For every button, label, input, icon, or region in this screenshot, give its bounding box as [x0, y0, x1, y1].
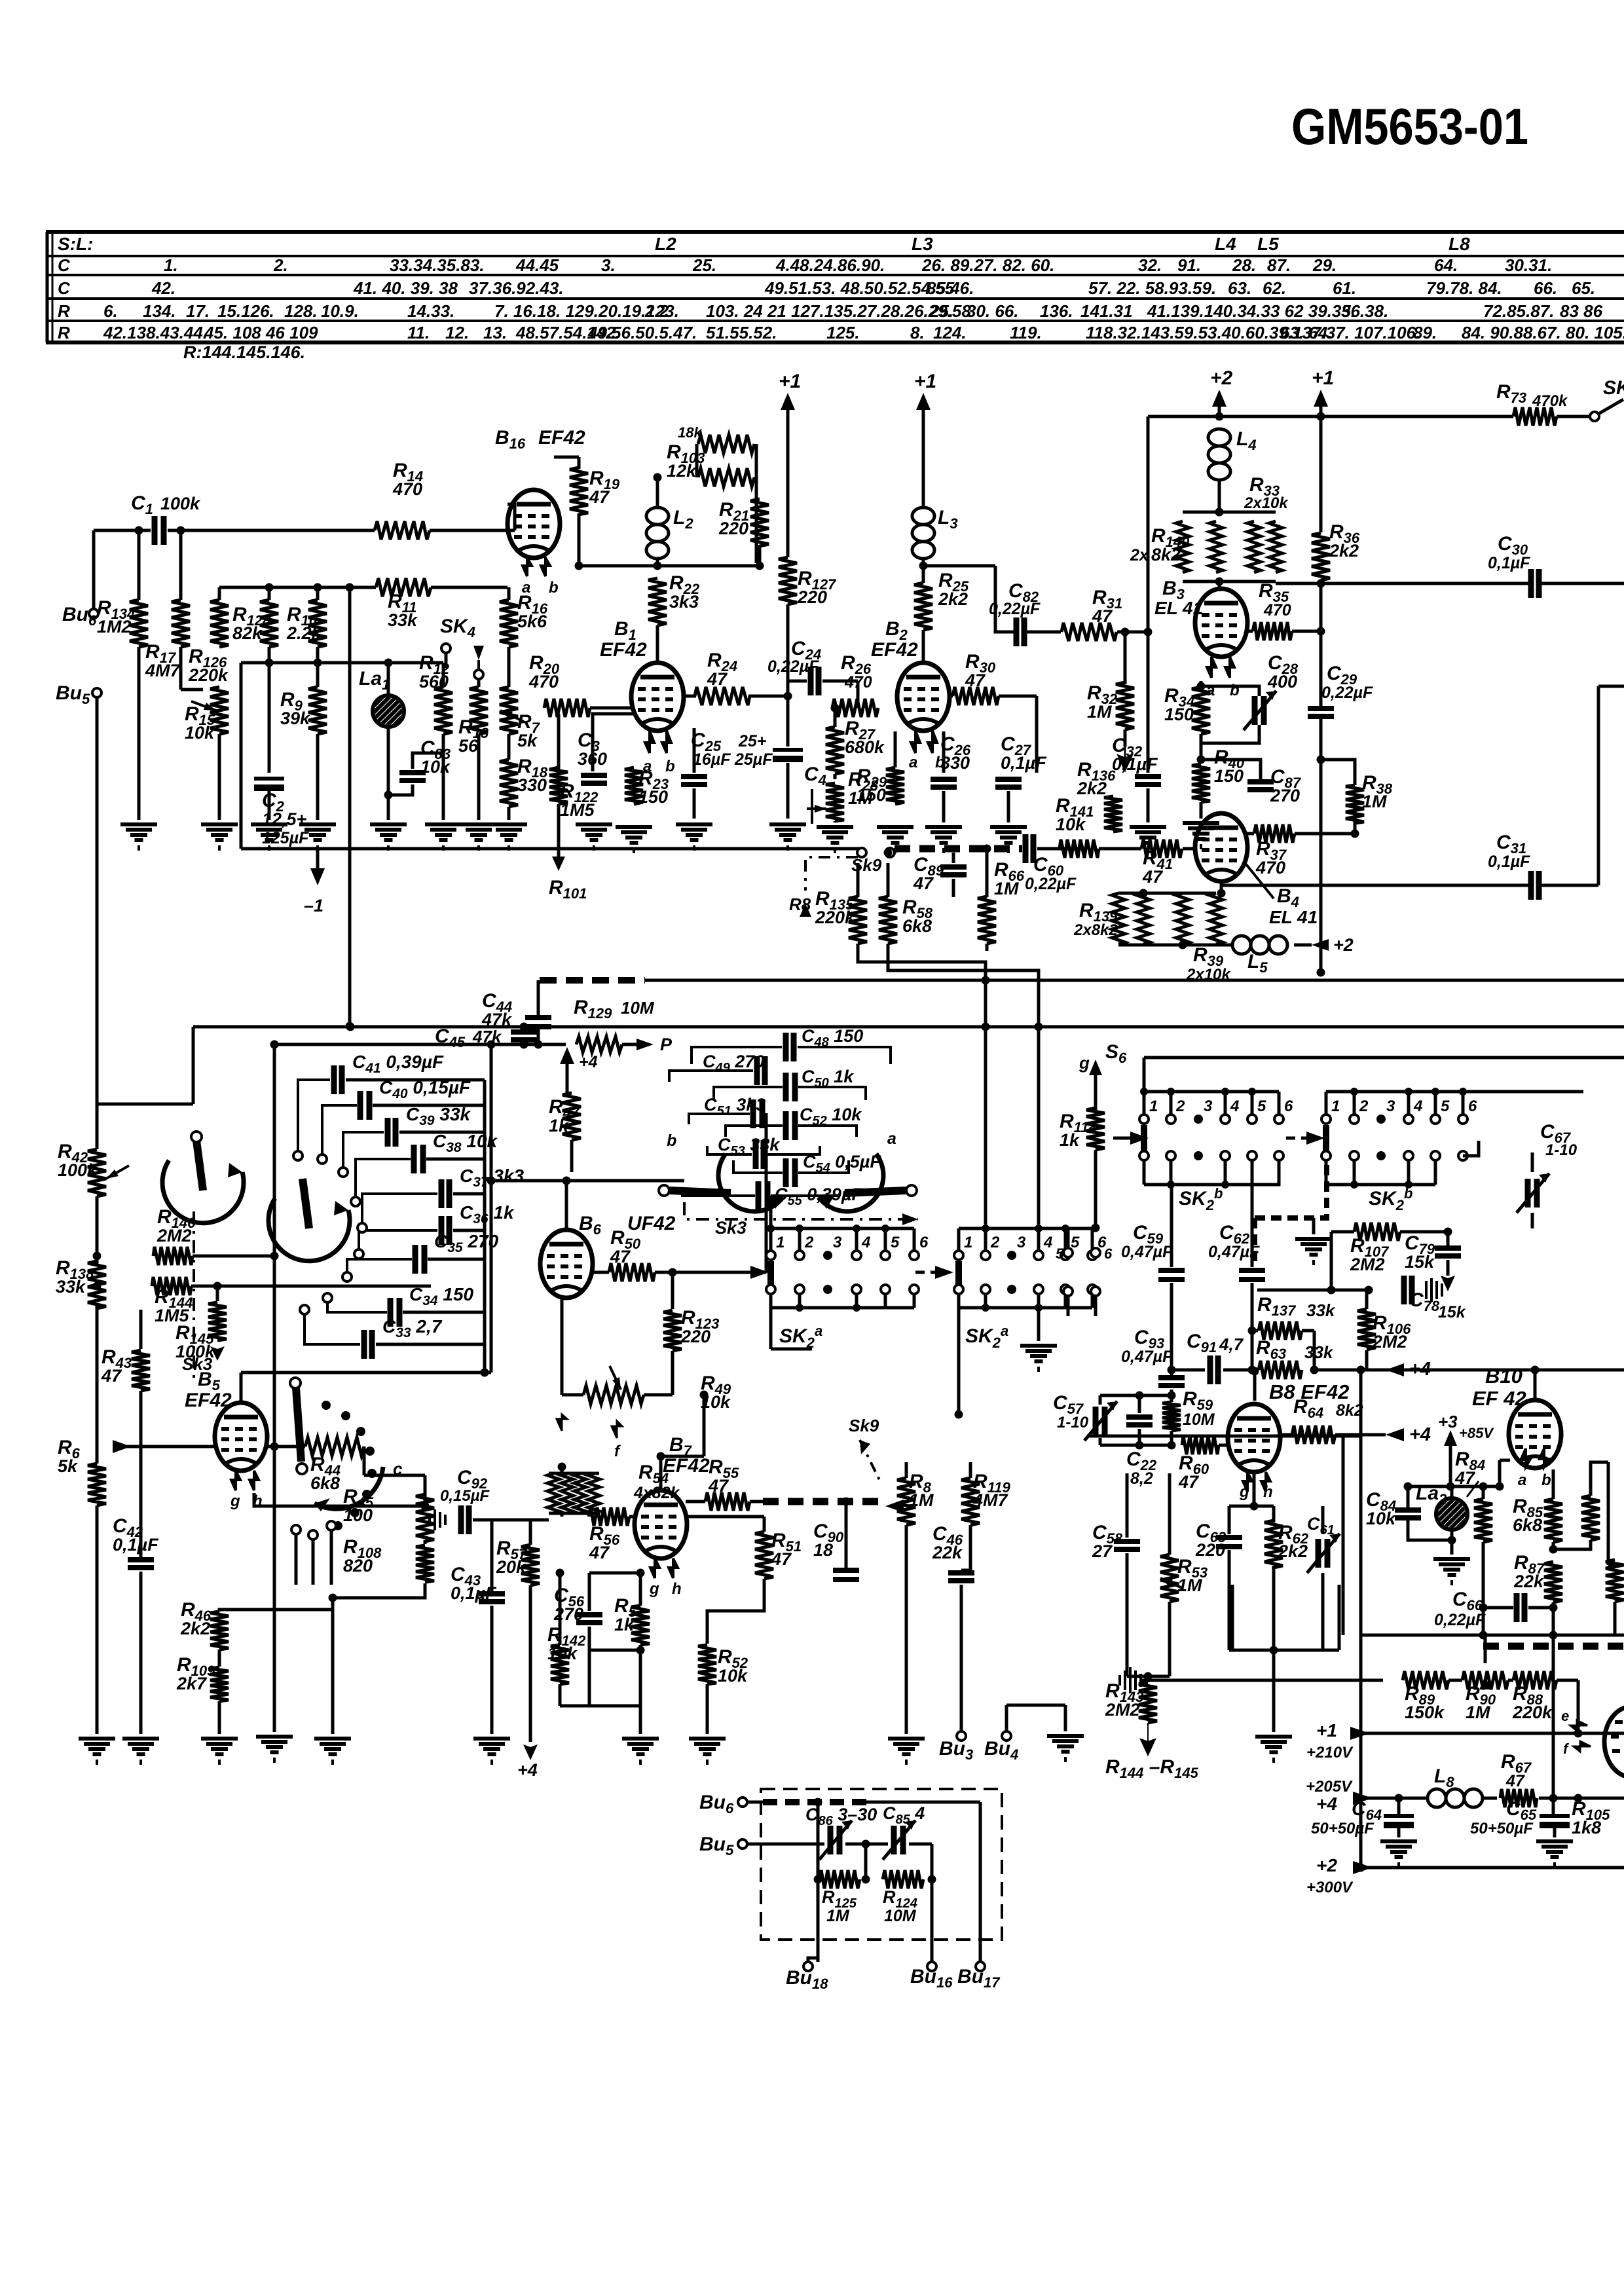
label 5050b	[1470, 1820, 1534, 1837]
svg-text:50+50µF: 50+50µF	[1470, 1820, 1534, 1837]
capacitor C34	[390, 1298, 399, 1327]
junction	[1317, 580, 1325, 588]
label R87	[1513, 1552, 1545, 1591]
svg-text:17.: 17.	[186, 301, 210, 321]
rotor arc mid L	[718, 1154, 783, 1211]
wire	[1181, 1444, 1184, 1447]
ground	[314, 1739, 351, 1765]
junction	[657, 1452, 665, 1461]
wire	[477, 734, 481, 820]
wire	[316, 663, 320, 687]
junction	[1549, 1545, 1558, 1554]
resistor R38	[1346, 785, 1364, 823]
wire	[1557, 1679, 1578, 1682]
tube B16 EF42	[507, 490, 560, 558]
svg-text:470: 470	[528, 672, 559, 691]
wire	[1539, 1797, 1624, 1800]
capacitor C25	[681, 777, 707, 784]
resistor R140a	[1176, 521, 1189, 572]
wire	[268, 587, 271, 600]
label R140	[1151, 525, 1190, 564]
label EF42 B1	[600, 639, 647, 661]
resistor R124	[883, 1870, 923, 1889]
svg-text:13.: 13.	[483, 323, 507, 342]
label R20	[528, 652, 560, 691]
label 47 R67	[1505, 1772, 1525, 1790]
terminal Bu6 b	[738, 1797, 747, 1807]
svg-text:22k: 22k	[932, 1543, 963, 1562]
wire	[686, 1500, 705, 1503]
label B5	[198, 1369, 221, 1393]
switch SK2a bank2	[954, 1225, 1107, 1260]
resistor R52	[698, 1645, 716, 1684]
wire	[1127, 1675, 1170, 1678]
label R54	[638, 1462, 669, 1486]
resistor R123	[663, 1310, 682, 1351]
wire	[346, 1078, 485, 1082]
terminal Bu6	[89, 609, 98, 618]
wire	[1450, 1540, 1454, 1555]
junction	[1395, 1794, 1403, 1803]
wire	[1067, 1296, 1070, 1316]
wire	[748, 695, 788, 698]
wire	[969, 1525, 972, 1570]
svg-text:5: 5	[891, 1234, 900, 1251]
wire	[706, 1684, 709, 1734]
svg-text:3: 3	[1386, 1097, 1395, 1115]
tube B5 pin h	[249, 1471, 259, 1490]
resistor R39b	[1209, 893, 1223, 944]
label R24	[707, 650, 737, 689]
label R129	[574, 997, 612, 1022]
table grid	[46, 232, 1624, 342]
resistor R51	[755, 1532, 773, 1579]
wire	[671, 1272, 674, 1309]
wire	[1359, 1635, 1363, 1868]
rotor arc Sk a	[162, 1160, 244, 1223]
svg-text:4: 4	[1413, 1097, 1422, 1115]
rotor arc Sk b	[268, 1198, 350, 1261]
label R36	[1329, 521, 1360, 561]
label R37	[1255, 838, 1287, 877]
resistor R63	[1259, 1361, 1302, 1379]
wire	[96, 1104, 99, 1149]
svg-text:EL 41: EL 41	[1154, 598, 1203, 618]
label R25	[938, 570, 969, 609]
svg-text:R8: R8	[789, 894, 811, 914]
arrow +4 b7	[517, 1742, 538, 1780]
label g S6	[1079, 1053, 1090, 1073]
svg-text:49.56.50.5.47.: 49.56.50.5.47.	[587, 323, 697, 342]
resistor R13	[470, 687, 488, 734]
svg-text:SK5: SK5	[1603, 377, 1624, 402]
ground	[1183, 823, 1219, 849]
pot wiper	[610, 1366, 621, 1390]
label R122	[560, 781, 599, 820]
resistor R12	[434, 687, 452, 734]
tube B5 EF42	[215, 1403, 267, 1471]
junction	[1179, 941, 1187, 949]
junction	[1215, 413, 1224, 421]
contact dots B5 rotor	[322, 1401, 377, 1530]
svg-text:0,1µF: 0,1µF	[1488, 853, 1530, 871]
svg-text:4: 4	[1043, 1234, 1052, 1251]
label 8,2	[1130, 1469, 1153, 1488]
junction	[1250, 1502, 1259, 1511]
capacitor C91	[1210, 1355, 1218, 1384]
wire	[1094, 1296, 1098, 1316]
ground	[251, 824, 287, 851]
wire	[817, 1879, 820, 1962]
junction	[1215, 578, 1224, 586]
svg-text:51.55.52.: 51.55.52.	[706, 323, 777, 342]
wire	[1397, 1828, 1401, 1837]
bus C	[274, 1043, 566, 1046]
switch SK2a bank1 row2	[766, 1285, 919, 1312]
svg-text:64.: 64.	[1434, 255, 1458, 275]
junction	[1317, 413, 1325, 421]
label Sk9	[851, 855, 882, 875]
wire	[1552, 1542, 1555, 1549]
ground	[576, 824, 612, 851]
junction	[270, 1041, 279, 1049]
resistor R86	[1581, 1496, 1600, 1540]
wire	[424, 1498, 427, 1506]
wire	[1126, 1473, 1129, 1538]
svg-text:h: h	[1263, 1483, 1273, 1501]
label R108	[343, 1536, 382, 1576]
ground	[616, 827, 652, 853]
wire	[445, 653, 448, 668]
wire	[316, 647, 320, 663]
wire	[1400, 1230, 1448, 1234]
wire	[1405, 1485, 1500, 1488]
tube B7 pin h	[669, 1558, 678, 1578]
capacitor C57	[1084, 1401, 1117, 1441]
label R106	[1372, 1312, 1411, 1352]
label C34	[409, 1284, 474, 1309]
svg-text:79.78. 84.: 79.78. 84.	[1426, 278, 1502, 298]
wire	[1447, 1232, 1450, 1248]
wire	[1170, 1283, 1173, 1376]
label EF42	[538, 427, 585, 449]
bus +4 second	[1087, 1435, 1361, 1438]
wire	[268, 647, 271, 663]
junction	[93, 1252, 101, 1261]
wire	[373, 1104, 485, 1107]
junction	[1197, 756, 1206, 764]
svg-text:360: 360	[578, 749, 607, 769]
label Bu6	[699, 1792, 734, 1816]
label R39	[1193, 944, 1224, 969]
capacitor C50	[786, 1073, 795, 1101]
label R43	[101, 1346, 132, 1386]
junction	[575, 562, 583, 570]
label R88	[1512, 1683, 1553, 1722]
wire	[693, 788, 696, 819]
resistor R103a	[698, 435, 754, 453]
label R124	[883, 1887, 917, 1925]
svg-text:65.: 65.	[1572, 278, 1595, 298]
svg-text:0,47µF: 0,47µF	[1121, 1348, 1173, 1366]
svg-text:+2: +2	[1316, 1855, 1337, 1875]
contact Sk	[323, 1293, 332, 1302]
wire	[590, 707, 633, 710]
label C90	[813, 1521, 844, 1560]
svg-text:1M5: 1M5	[560, 800, 595, 820]
capacitor C28	[1244, 691, 1276, 730]
wire C83 bot	[388, 784, 413, 795]
label C56	[553, 1585, 585, 1624]
wire	[312, 1539, 315, 1585]
tube B1 pin a	[645, 731, 654, 753]
svg-text:82k: 82k	[232, 623, 263, 643]
wire	[1219, 1444, 1230, 1447]
label R21	[718, 499, 749, 538]
wire	[1342, 1436, 1345, 1635]
svg-text:27: 27	[1092, 1541, 1113, 1561]
svg-text:25µF: 25µF	[734, 750, 773, 769]
junction	[1139, 889, 1148, 898]
junction	[1248, 1366, 1257, 1374]
wire	[1353, 1797, 1428, 1800]
label 2x	[1130, 546, 1149, 564]
wire	[523, 1027, 526, 1033]
wire	[999, 695, 1037, 698]
label R46	[180, 1599, 212, 1638]
label R127	[797, 568, 837, 607]
label 0,1uF C30	[1488, 554, 1530, 572]
ground	[490, 824, 527, 851]
label 470 R35	[1263, 601, 1291, 619]
wire	[1148, 415, 1513, 418]
resistor R21	[750, 499, 769, 546]
capacitor C31	[1531, 871, 1539, 900]
label C48	[802, 1026, 863, 1050]
box compensation	[761, 1789, 1002, 1940]
wire	[240, 663, 243, 849]
wire R51-R52	[707, 1579, 764, 1644]
svg-text:b: b	[549, 579, 559, 597]
svg-text:1M: 1M	[826, 1907, 850, 1925]
inductor L2	[646, 507, 669, 559]
resistor R17	[172, 600, 190, 647]
svg-text:270: 270	[553, 1604, 583, 1624]
capacitor C24	[811, 667, 819, 695]
ground	[877, 827, 913, 853]
wire	[1126, 1553, 1129, 1676]
capacitor C27	[995, 779, 1022, 787]
resistor R29	[886, 767, 904, 804]
wire	[1168, 1602, 1172, 1676]
wire	[786, 763, 790, 819]
wire	[656, 625, 659, 663]
ground	[769, 824, 806, 851]
wire	[986, 849, 989, 897]
label +1 210	[1306, 1720, 1354, 1761]
wire	[1329, 582, 1530, 585]
label C63	[1195, 1521, 1226, 1560]
wire C84 b	[1408, 1518, 1452, 1540]
svg-text:B10: B10	[1485, 1365, 1522, 1388]
junction	[520, 1023, 528, 1031]
label R53	[1177, 1556, 1208, 1595]
junction	[384, 659, 393, 667]
arrow +4 left	[1353, 1792, 1373, 1805]
rotor arm B5	[290, 1378, 307, 1474]
svg-text:47: 47	[101, 1366, 122, 1386]
wire	[1350, 1732, 1578, 1735]
svg-text:6k8: 6k8	[902, 916, 932, 936]
wire	[559, 1573, 562, 1645]
wire	[489, 1179, 684, 1183]
resistor R129	[576, 1037, 622, 1052]
svg-text:56: 56	[458, 736, 479, 756]
wire	[507, 807, 511, 820]
wire	[424, 1540, 427, 1544]
capacitor C92	[461, 1505, 469, 1534]
label R73	[1496, 381, 1526, 406]
svg-text:0,22µF: 0,22µF	[1434, 1611, 1486, 1629]
wire	[1447, 1260, 1450, 1276]
wire	[591, 1271, 609, 1274]
wire	[1246, 630, 1253, 633]
link Sk9 dash	[805, 857, 858, 891]
wire	[1365, 1350, 1369, 1370]
junction	[700, 1391, 709, 1399]
label 6	[1104, 1245, 1113, 1262]
resistor R141	[1060, 839, 1099, 858]
wire	[1500, 1459, 1510, 1462]
label B7	[669, 1434, 693, 1459]
switch SK2b blade2	[1323, 1125, 1329, 1151]
wire	[376, 1343, 485, 1346]
capacitor C38	[414, 1145, 423, 1173]
capacitor C40	[360, 1091, 369, 1120]
junction	[135, 526, 143, 535]
label R62	[1278, 1522, 1309, 1561]
label C46	[932, 1523, 963, 1562]
resistor R11	[376, 578, 431, 597]
label L5	[1247, 951, 1268, 976]
label R123	[680, 1307, 719, 1346]
wire	[1037, 970, 1041, 1225]
label R7	[517, 711, 541, 750]
wire	[1449, 1679, 1462, 1682]
wire	[1253, 1371, 1257, 1401]
label 0,15uF	[440, 1487, 490, 1505]
tube B16 pin b	[541, 558, 550, 576]
capacitor C65	[1540, 1816, 1570, 1828]
wire	[193, 1255, 274, 1258]
wire B5 cathode	[254, 1493, 425, 1506]
wire	[1251, 1185, 1254, 1267]
capacitor C93	[1158, 1378, 1185, 1386]
wire	[92, 530, 96, 609]
junction	[1168, 1441, 1176, 1450]
svg-text:0,22µF: 0,22µF	[1025, 875, 1077, 893]
inductor L5	[1232, 936, 1287, 954]
label R40	[1214, 747, 1245, 786]
svg-text:1M: 1M	[909, 1490, 934, 1510]
resistor R19	[570, 468, 588, 515]
junction	[1215, 508, 1224, 517]
switch SK2b blade1	[1141, 1125, 1147, 1151]
bus A shielded	[540, 977, 645, 984]
resistor R22	[648, 578, 667, 625]
label R59	[1183, 1388, 1213, 1413]
wire	[894, 731, 897, 767]
svg-text:560: 560	[419, 672, 449, 691]
svg-text:1M2: 1M2	[97, 617, 132, 636]
label EL41	[1154, 598, 1203, 618]
wire	[1183, 847, 1196, 851]
svg-text:b: b	[667, 1132, 676, 1150]
svg-text:L5: L5	[1257, 234, 1279, 254]
wire	[817, 1802, 820, 1879]
wire	[1578, 1732, 1624, 1735]
wire	[1534, 1370, 1537, 1399]
label 33k R63	[1304, 1342, 1334, 1362]
wire	[1099, 1395, 1102, 1405]
svg-text:5k6: 5k6	[517, 612, 547, 631]
tube B1 pin b	[662, 731, 671, 753]
svg-text:44.45: 44.45	[515, 255, 559, 275]
svg-text:4M7: 4M7	[145, 661, 181, 680]
svg-text:+1: +1	[914, 371, 936, 392]
wire C83 top	[413, 753, 443, 769]
svg-text:6: 6	[1468, 1097, 1477, 1115]
wire	[771, 1348, 812, 1351]
arrow +4 r63	[1386, 1359, 1431, 1380]
label 15k C78	[1438, 1303, 1466, 1321]
arrow +4 r64	[1386, 1424, 1431, 1445]
label 100k	[160, 494, 201, 513]
capacitor C45	[511, 1032, 537, 1040]
switch SK2a blade1	[767, 1261, 774, 1286]
chassis C92	[430, 1509, 445, 1530]
rotor arm mid L	[659, 1185, 731, 1196]
tube B3 EL41	[1195, 589, 1247, 657]
bus A	[645, 979, 1624, 982]
svg-text:+210V: +210V	[1306, 1744, 1354, 1761]
junction	[1447, 1483, 1455, 1491]
label R85	[1513, 1496, 1543, 1535]
junction	[1479, 1483, 1488, 1491]
label R101	[549, 877, 587, 902]
wire	[273, 1044, 276, 1732]
label R16	[517, 592, 548, 631]
arrow gnd R145	[210, 1342, 225, 1361]
label R27	[845, 718, 885, 757]
svg-text:20k: 20k	[496, 1557, 527, 1577]
wire	[1147, 416, 1150, 632]
label a b B3	[1206, 682, 1240, 699]
label C62	[1219, 1222, 1250, 1247]
svg-text:33.34.35.83.: 33.34.35.83.	[390, 255, 485, 275]
svg-text:10M: 10M	[1183, 1410, 1215, 1429]
contact Sk	[300, 1305, 309, 1314]
label Bu5	[699, 1834, 734, 1858]
wire	[387, 727, 390, 820]
switch SK2b bank1 row2	[1139, 1151, 1283, 1189]
svg-text:+3: +3	[1438, 1412, 1458, 1431]
wire	[191, 1285, 431, 1288]
svg-text:25.: 25.	[929, 301, 953, 321]
wire	[1321, 1506, 1325, 1534]
capacitor C42	[128, 1560, 154, 1568]
svg-text:270: 270	[1270, 786, 1300, 805]
